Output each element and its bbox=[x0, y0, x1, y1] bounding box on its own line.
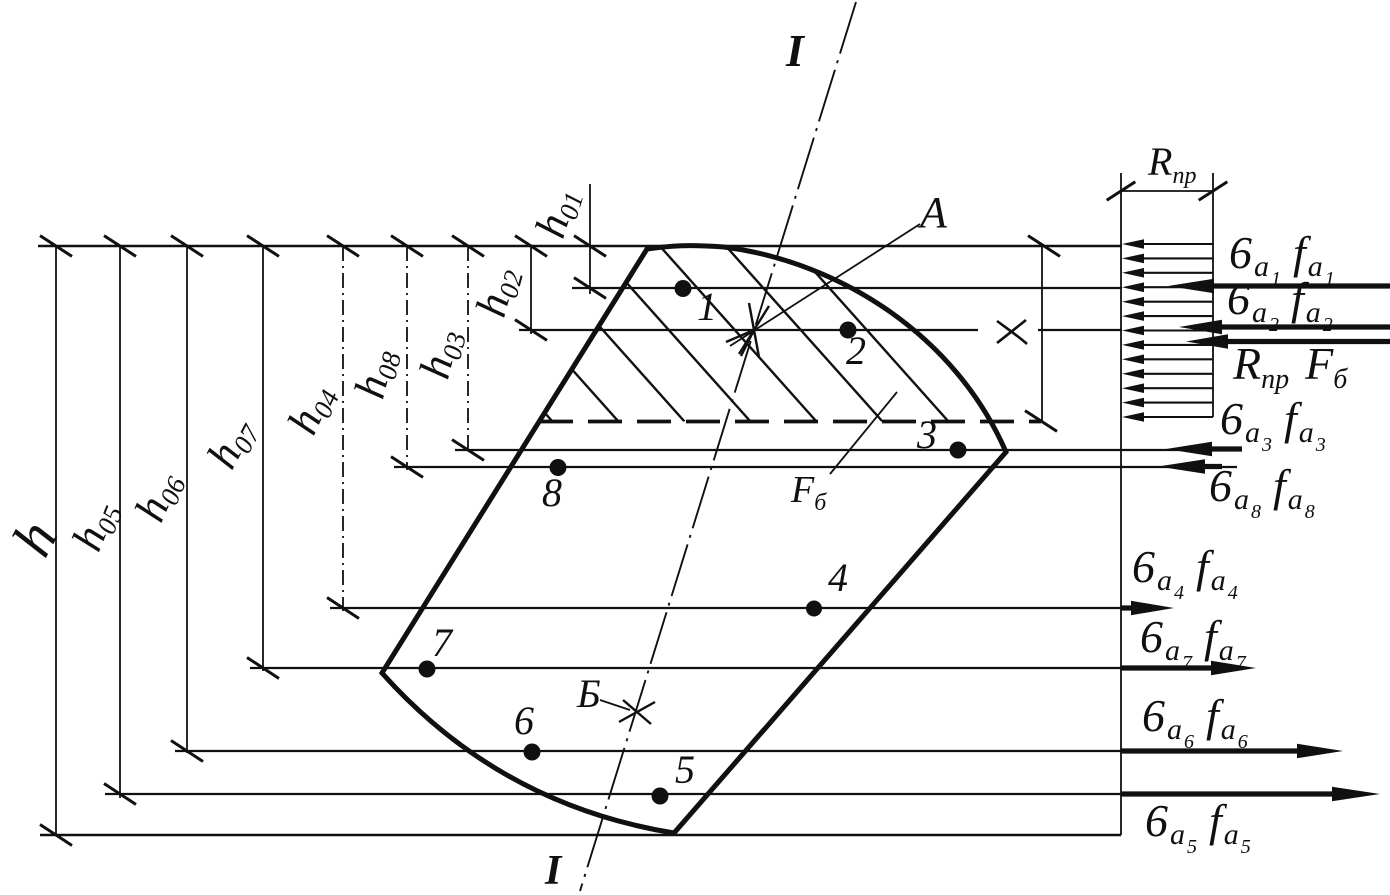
distributed stress arrow 12 bbox=[1136, 402, 1213, 404]
svg-text:4: 4 bbox=[828, 555, 848, 600]
svg-text:2: 2 bbox=[846, 328, 866, 373]
distributed stress arrows bbox=[1122, 239, 1213, 422]
svg-text:Б: Б bbox=[576, 671, 601, 716]
svg-text:I: I bbox=[544, 848, 563, 894]
tick top line x=56 bbox=[40, 236, 72, 257]
force arrow sigma_a7 f_a7 bbox=[1121, 665, 1211, 670]
compression zone hatching bbox=[262, 244, 1147, 422]
distributed stress arrow 1 bbox=[1136, 243, 1213, 245]
tick level line end (343,608) bbox=[327, 598, 359, 619]
tick top line x=263 bbox=[247, 236, 279, 257]
tick level line end (468,450) bbox=[452, 440, 484, 461]
ticks bbox=[40, 182, 1227, 846]
distributed stress arrow 8 bbox=[1136, 344, 1213, 346]
level line bar 5 bbox=[105, 793, 1326, 795]
force arrow sigma_a4 f_a4 bbox=[1121, 605, 1131, 610]
force arrow sigma_a5 f_a5 bbox=[1121, 791, 1332, 796]
svg-text:6: 6 bbox=[514, 698, 534, 743]
rebar 7 bbox=[419, 661, 436, 678]
force arrow sigma_a3 f_a3 bbox=[1212, 446, 1242, 451]
leader A bbox=[730, 224, 920, 346]
dimension vertical h06 bbox=[186, 246, 188, 753]
rebar 1 bbox=[675, 280, 692, 297]
level line bar 3 bbox=[455, 449, 1242, 451]
tick level line end (120,794) bbox=[104, 784, 136, 805]
force arrow sigma_a8 f_a8 bbox=[1205, 464, 1222, 469]
tick level line end (56,835) bbox=[40, 825, 72, 846]
distributed stress arrow 4 bbox=[1136, 286, 1213, 288]
tick Rpr dim (1213,191) bbox=[1199, 182, 1228, 201]
rebar 2 bbox=[840, 322, 857, 339]
tick level line end (1041,421) bbox=[1025, 411, 1057, 432]
rebar 8 bbox=[550, 459, 567, 476]
rebar 6 bbox=[524, 744, 541, 761]
dimension vertical h08 bbox=[406, 246, 408, 470]
svg-text:3: 3 bbox=[916, 412, 937, 457]
level line bar 1 bbox=[572, 287, 1122, 289]
distributed stress arrow 13 bbox=[1136, 416, 1213, 418]
tick top line x=590 bbox=[574, 236, 606, 257]
label x bbox=[997, 320, 1027, 344]
force arrow sigma_a6 f_a6 bbox=[1121, 748, 1297, 753]
leader F6 bbox=[830, 392, 897, 474]
tick top line x=407 bbox=[391, 236, 423, 257]
Rpr dimension line bbox=[1121, 190, 1213, 192]
level line bar 8 bbox=[394, 466, 1237, 468]
tick level line end (407,467) bbox=[391, 457, 423, 478]
dimension vertical h01 bbox=[589, 184, 591, 294]
tick top line x=468 bbox=[452, 236, 484, 257]
svg-text:8: 8 bbox=[542, 470, 562, 515]
point B mark bbox=[619, 700, 655, 724]
big force arrows bbox=[1121, 279, 1390, 801]
svg-text:5: 5 bbox=[675, 747, 695, 792]
rebar 3 bbox=[950, 442, 967, 459]
distributed stress arrow 10 bbox=[1136, 373, 1213, 375]
tick top line x=1044 bbox=[1028, 236, 1060, 257]
svg-text:I: I bbox=[785, 25, 806, 76]
level line bar 7 bbox=[250, 667, 1214, 669]
stress block right edge bbox=[1212, 173, 1214, 417]
distributed stress arrow 7 bbox=[1136, 329, 1213, 331]
rebar 4 bbox=[806, 601, 822, 617]
svg-text:A: A bbox=[917, 188, 948, 237]
tick level line end (590,288) bbox=[574, 278, 606, 299]
axis I-I bbox=[580, 2, 856, 891]
svg-text:1: 1 bbox=[697, 284, 717, 329]
force arrow Rpr F6 resultant bbox=[1228, 339, 1390, 344]
leader B bbox=[600, 700, 630, 710]
dimension vertical h05 bbox=[119, 246, 121, 798]
dimension vertical h04 bbox=[342, 246, 344, 611]
force arrow sigma_a1 f_a1 bbox=[1214, 283, 1390, 288]
tick level line end (263,668) bbox=[247, 658, 279, 679]
x dimension line bbox=[1041, 246, 1043, 421]
dimension vertical h bbox=[55, 246, 57, 835]
level line bar 4 bbox=[330, 607, 1128, 609]
tick top line x=343 bbox=[327, 236, 359, 257]
force arrow sigma_a2 f_a2 bbox=[1222, 324, 1390, 329]
rebar 5 bbox=[652, 788, 669, 805]
top reference line bbox=[38, 245, 1122, 248]
distributed stress arrow 6 bbox=[1136, 315, 1213, 317]
rebar dots bbox=[419, 280, 967, 805]
dimension vertical h02 bbox=[530, 246, 532, 334]
neutral axis dashed line bbox=[539, 420, 1041, 424]
bottom reference line bbox=[40, 834, 1121, 837]
dimension vertical h07 bbox=[262, 246, 264, 671]
tick level line end (531,330) bbox=[515, 320, 547, 341]
tick level line end (187,751) bbox=[171, 741, 203, 762]
section outline bbox=[382, 246, 1006, 833]
distributed stress arrow 11 bbox=[1136, 387, 1213, 389]
distributed stress arrow 3 bbox=[1136, 272, 1213, 274]
tick top line x=120 bbox=[104, 236, 136, 257]
distributed stress arrow 5 bbox=[1136, 301, 1213, 303]
dimension vertical h03 bbox=[467, 246, 469, 455]
tick Rpr dim (1121,191) bbox=[1107, 182, 1136, 201]
tick top line x=187 bbox=[171, 236, 203, 257]
level line bar 6 bbox=[175, 750, 1300, 752]
level line bar 2 bbox=[519, 329, 978, 331]
point A mark bbox=[726, 303, 769, 357]
vertical zero-stress axis bbox=[1120, 173, 1122, 835]
distributed stress arrow 2 bbox=[1136, 257, 1213, 259]
svg-text:7: 7 bbox=[432, 620, 454, 665]
distributed stress arrow 9 bbox=[1136, 358, 1213, 360]
tick top line x=531 bbox=[515, 236, 547, 257]
